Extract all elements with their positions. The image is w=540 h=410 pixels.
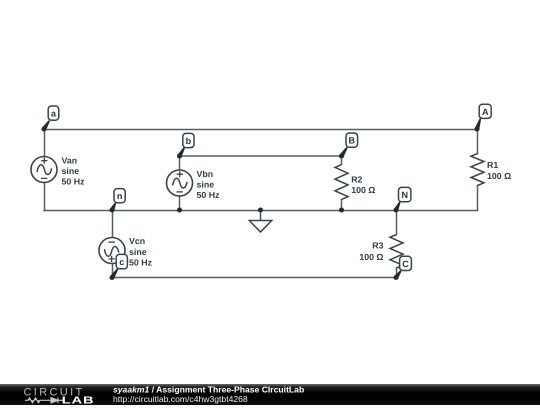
wire Vcn leads bbox=[112, 211, 114, 278]
label Vcn bbox=[129, 236, 153, 267]
component labels bbox=[62, 155, 512, 267]
svg-text:LAB: LAB bbox=[62, 394, 95, 405]
wire neutral bbox=[44, 210, 477, 212]
resistor R1 bbox=[471, 154, 484, 186]
wire Van leads bbox=[44, 129, 46, 211]
Vbn bottom junction bbox=[177, 207, 182, 212]
node b junction bbox=[177, 153, 182, 158]
node n bbox=[110, 189, 125, 212]
voltage source Vbn bbox=[167, 170, 193, 196]
node C junction bbox=[393, 275, 398, 280]
svg-text:http://circuitlab.com/c4hw3gtb: http://circuitlab.com/c4hw3gtbt4268 bbox=[113, 394, 248, 404]
node A bbox=[475, 104, 491, 130]
node c junction bbox=[109, 275, 114, 280]
wire R1 leads bbox=[477, 129, 479, 211]
node N bbox=[394, 187, 411, 211]
ground bbox=[249, 210, 271, 232]
resistor R2 bbox=[335, 165, 348, 200]
label R2 bbox=[351, 175, 375, 196]
ground junction bbox=[258, 207, 263, 212]
node c bbox=[110, 254, 127, 278]
node n junction bbox=[109, 207, 114, 212]
label Vbn bbox=[197, 169, 221, 200]
node A junction bbox=[474, 126, 479, 131]
label R3 bbox=[359, 240, 383, 261]
voltage source Vcn (inverted) bbox=[99, 238, 125, 264]
node a bbox=[42, 106, 59, 130]
label Van bbox=[62, 155, 86, 186]
node a junction bbox=[41, 126, 46, 131]
wire phase c bottom bbox=[112, 277, 397, 279]
logo resistor-diode glyph bbox=[25, 398, 64, 404]
footer bar bbox=[0, 384, 540, 405]
resistor R3 bbox=[390, 235, 403, 269]
wire phase b bbox=[180, 155, 342, 157]
node N junction bbox=[393, 207, 398, 212]
voltage source Van bbox=[31, 157, 57, 183]
node B junction bbox=[339, 153, 344, 158]
node C bbox=[394, 256, 411, 279]
node labels bbox=[42, 104, 491, 279]
node B bbox=[340, 133, 358, 157]
wire R3 leads bbox=[396, 211, 398, 278]
wire R2 leads bbox=[341, 156, 343, 210]
wire Vbn leads bbox=[179, 156, 181, 210]
node b bbox=[178, 133, 195, 157]
R2 bottom junction bbox=[339, 207, 344, 212]
label R1 bbox=[487, 160, 511, 181]
wire phase a top bbox=[44, 129, 478, 131]
